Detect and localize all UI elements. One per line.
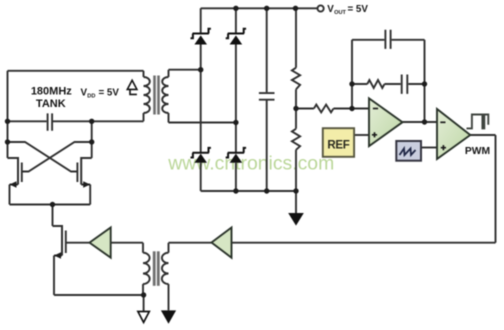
svg-text:= 5V: = 5V: [97, 88, 120, 99]
svg-text:DD: DD: [87, 94, 95, 100]
svg-text:REF: REF: [327, 140, 349, 152]
svg-text:= 5V: = 5V: [346, 4, 369, 15]
svg-text:PWM: PWM: [465, 146, 490, 157]
svg-text:TANK: TANK: [36, 98, 66, 110]
svg-text:180MHz: 180MHz: [31, 86, 72, 98]
